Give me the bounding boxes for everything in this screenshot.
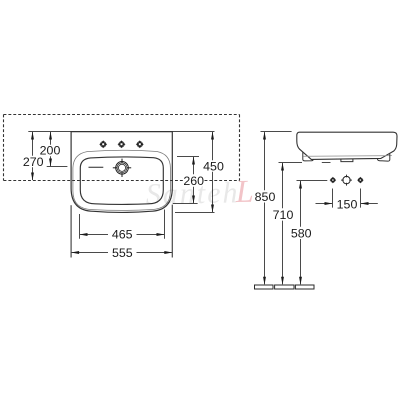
svg-text:555: 555 (112, 246, 133, 260)
floor slab 2 (275, 285, 294, 289)
dim 200 arrow up (49, 132, 52, 140)
dim 260 line (193, 157, 195, 174)
dim 465 extension left (79, 214, 81, 239)
dashed boundary top (4, 114, 240, 116)
svg-text:Santeh: Santeh (146, 176, 240, 211)
dim 465 line (80, 234, 108, 236)
mounting line dash under basin (322, 162, 331, 164)
dim 450 arrow down (211, 205, 214, 213)
dim 465 extension right (164, 210, 166, 239)
dim 580 arrow down (299, 277, 302, 285)
dim 850 arrow up (263, 132, 266, 140)
dim 150 extension right (360, 189, 362, 208)
svg-text:270: 270 (23, 155, 44, 169)
svg-text:150: 150 (337, 198, 358, 212)
dim 555 extension left (70, 205, 72, 257)
dim 150 extension left (332, 189, 334, 208)
svg-text:580: 580 (291, 227, 312, 241)
dim 555 arrow right (164, 251, 172, 254)
wall hole right (side view) (357, 177, 364, 184)
dim 555 arrow left (71, 251, 79, 254)
right foot (side view) (377, 154, 389, 161)
dim 465 arrow right (157, 233, 165, 236)
dim 850 arrow down (263, 277, 266, 285)
dim 580 line (300, 181, 302, 227)
rim inner edge (top view) (73, 150, 170, 210)
washbasin side profile (297, 132, 397, 159)
dim 555 extension right (171, 205, 173, 258)
drain centre line in-basin segment (89, 166, 104, 168)
tap hole cross 1 (top view) (99, 140, 107, 148)
dim 710 arrow up (281, 163, 284, 171)
fixing tab (side view) (341, 159, 353, 162)
dim 270 arrow down (31, 173, 34, 181)
side profile inner bottom line (304, 155, 393, 158)
top extension line (left view) (28, 131, 214, 133)
floor slab 3 (295, 285, 314, 289)
dim 450 arrow up (211, 132, 214, 140)
dim 150 left arrow (316, 203, 333, 205)
dim 260 extension top (177, 156, 199, 158)
left foot (side view) (303, 152, 313, 161)
washbasin outer outline (top view) (71, 132, 172, 213)
dim 200 line (50, 132, 52, 145)
svg-text:710: 710 (273, 208, 294, 222)
svg-text:465: 465 (112, 228, 133, 242)
dim 260 arrow down (192, 196, 195, 204)
tap hole cross 3 (top view) (136, 140, 144, 148)
dim 200 arrow down (49, 159, 52, 167)
dim 270 arrow up (31, 132, 34, 140)
dim 580 arrow up (299, 181, 302, 189)
dim 260 arrow up (192, 157, 195, 165)
svg-text:850: 850 (255, 190, 276, 204)
dim 150 right arrow (361, 203, 378, 205)
svg-text:450: 450 (203, 160, 224, 174)
dim 450 extension bottom (175, 212, 215, 214)
dim 260 extension bottom (173, 203, 198, 205)
dashed boundary bottom / centre line (4, 180, 240, 182)
dashed boundary right (239, 115, 241, 181)
dim 465 arrow left (80, 233, 88, 236)
mounting line extension (710 level) (279, 162, 303, 164)
drain symbol (top view) (113, 159, 131, 177)
drain centre line left segment (47, 166, 68, 168)
dim 710 line (282, 163, 284, 208)
wall hole left (side view) (330, 177, 337, 184)
dashed boundary left (3, 115, 5, 181)
svg-text:L: L (234, 173, 255, 209)
dim 710 arrow down (281, 277, 284, 285)
tap hole cross 2 (top view) (118, 140, 126, 148)
wall hole centre (side view) (341, 175, 352, 186)
side view top extension line (261, 131, 292, 133)
dim 270 line (32, 132, 34, 156)
dim 450 line (212, 132, 214, 160)
basin opening (top view) (80, 157, 163, 205)
floor slab 1 (255, 285, 274, 289)
dim 850 line (264, 132, 266, 190)
wall holes line (580 level) (297, 180, 328, 182)
dim 555 line (72, 252, 109, 254)
